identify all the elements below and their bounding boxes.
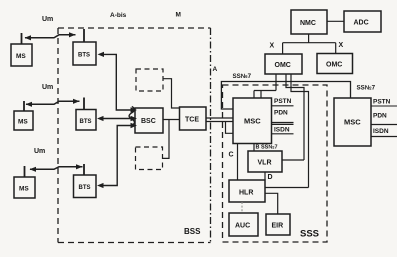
svg-text:TCE: TCE [185,117,199,124]
svg-text:MSC: MSC [344,118,361,127]
home location register HLR box [229,180,265,202]
arrowheads into BSC [131,107,138,128]
svg-text:PSTN: PSTN [373,99,391,106]
base station BTS3 box [74,175,97,198]
equipment identity register EIR box [266,214,290,235]
svg-text:BTS: BTS [80,119,92,125]
radio link arrow MS2-BTS2 [26,101,80,104]
SSS dashed boundary box [223,85,328,242]
MS3 antenna [24,166,26,177]
svg-text:A-bis: A-bis [110,12,127,19]
svg-text:BTS: BTS [79,185,91,191]
wire MSC1 to HLR (C interface) [237,144,239,181]
svg-text:ADC: ADC [354,20,369,27]
MS2 antenna [23,101,25,111]
wire ISDN line MSC2 [371,136,397,138]
dashed box below BSC (other BSC) [136,147,163,170]
wire upper dashed box to TCE [163,79,180,108]
base station controller BSC box [135,108,163,133]
wire PSTN line MSC2 [371,105,397,107]
wire HLR to EIR [265,193,278,214]
wire OMC1 to VLR (right side drop) [286,74,304,160]
mobile station MS3 box [14,177,35,198]
mobile switching centre MSC2 box [334,98,371,146]
radio link arrow MS3-BTS3 [30,167,83,170]
svg-text:MS: MS [16,53,26,60]
authentication centre AUC box [229,213,258,236]
wire ISDN line MSC1 [272,133,294,135]
svg-text:C: C [229,152,234,159]
BSS dashed boundary box [58,28,211,243]
radio link arrow MS1-BTS1 [25,35,76,38]
network management centre NMC box [291,10,327,34]
mobile switching centre MSC1 box [233,98,272,144]
visitor location register VLR box [248,151,282,172]
svg-text:X: X [270,43,275,50]
mobile station MS2 box [14,111,33,130]
svg-text:Um: Um [42,84,53,91]
svg-text:AUC: AUC [235,223,250,230]
svg-text:A: A [213,66,218,73]
svg-text:SS№7: SS№7 [233,73,252,80]
svg-text:SSS: SSS [300,229,319,240]
svg-text:PDN: PDN [373,113,387,120]
svg-text:MSC: MSC [244,117,261,126]
A interface dash-dot line (BSS right edge) [210,28,212,243]
wire BTS3 to BSC [103,126,131,186]
wire OMC1 to MSC1 (double drop) [254,74,276,98]
svg-text:ISDN: ISDN [373,128,389,135]
BTS1 antenna [83,29,85,42]
wire PDN line MSC2 [371,124,397,126]
wire BTS2 to BSC [103,118,131,120]
wire MSC1 to VLR (B interface) [253,144,255,152]
wire BTS1 to BSC [103,54,131,110]
svg-text:MS: MS [18,119,28,126]
svg-text:MS: MS [19,186,29,193]
svg-text:B SS№7: B SS№7 [256,145,278,151]
svg-text:PDN: PDN [274,110,288,117]
wire VLR right to OMC drop [282,159,304,161]
BTS2 antenna [83,98,85,110]
svg-text:X: X [339,42,344,49]
svg-text:M: M [176,12,181,19]
svg-text:BSS: BSS [184,227,201,236]
svg-text:Um: Um [34,148,45,155]
wire lower dashed box to BSC-TCE link [163,120,170,159]
wire HLR right long line to OMC drop [265,187,309,189]
base station BTS1 box [73,42,96,65]
BTS3 antenna [83,164,85,175]
wire PDN double line MSC1 [272,123,294,125]
dashed box above BSC (other BSC) [136,69,163,91]
svg-text:VLR: VLR [258,160,272,167]
svg-text:HLR: HLR [239,190,253,197]
svg-text:EIR: EIR [272,223,284,230]
transcoder TCE box [180,107,207,130]
svg-text:SS№7: SS№7 [357,85,376,92]
svg-text:ISDN: ISDN [274,127,290,134]
operation and maintenance centre OMC2 box [317,54,353,74]
wire NMC to ADC [327,20,344,22]
wire BSC to TCE [163,119,180,121]
wire VLR to HLR (D interface) [264,172,266,180]
svg-text:OMC: OMC [326,62,342,69]
wire PSTN line MSC1 [272,105,294,107]
svg-text:OMC: OMC [275,62,291,69]
wire OMC1 to HLR (right side drop) [291,74,309,188]
svg-text:BSC: BSC [141,118,156,125]
Abis squiggle at BSC input [129,107,134,126]
svg-text:D: D [268,174,273,181]
mobile station MS1 box [11,44,32,66]
SS7 bus MSC1 to MSC2 [221,82,350,110]
wire HLR to AUC (faint) [241,202,243,213]
wire trunk branch down into MSC [226,122,234,134]
trunk TCE to MSC (double line) [206,118,233,122]
svg-text:NMC: NMC [300,20,316,27]
administration centre ADC box [344,11,381,32]
operation and maintenance centre OMC1 box [265,54,302,74]
svg-text:BTS: BTS [78,53,90,59]
wire NMC down to X branch [283,34,336,54]
svg-text:PSTN: PSTN [274,98,292,105]
MS1 antenna [21,33,23,44]
base station BTS2 box [76,110,96,131]
svg-text:Um: Um [42,16,53,23]
